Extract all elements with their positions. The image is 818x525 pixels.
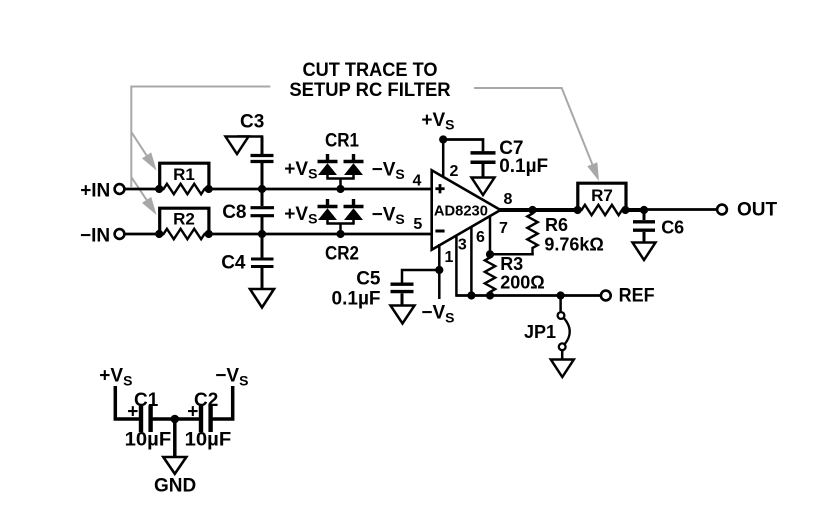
resistor R6: [490, 210, 604, 255]
capacitor C7: [471, 138, 549, 178]
node C3/+IN: [258, 185, 266, 193]
ground (C5): [391, 306, 415, 324]
wire pin 8 output: [500, 208, 579, 212]
resistor R7: [578, 183, 626, 215]
ground (C4): [250, 289, 274, 308]
terminal OUT: [717, 205, 727, 215]
node R6 bottom / pin7: [486, 250, 494, 258]
node R7 right: [621, 206, 629, 214]
wire C5 branch: [402, 270, 439, 283]
svg-text:8: 8: [504, 191, 513, 208]
svg-text:2: 2: [450, 163, 459, 180]
wire center node to ground: [173, 419, 177, 457]
capacitor C4: [221, 234, 273, 289]
node R2 right: [205, 230, 213, 238]
svg-text:C8: C8: [222, 202, 246, 223]
ground (C6): [633, 243, 656, 261]
node R1 left: [155, 185, 163, 193]
pin 2 wire: [442, 140, 445, 178]
svg-text:7: 7: [499, 220, 508, 237]
arrowhead to R2: [142, 197, 157, 215]
wire to OUT: [644, 208, 717, 211]
node R3/REF: [486, 291, 494, 299]
svg-text:C3: C3: [240, 112, 264, 133]
pin 1 wire: [438, 244, 441, 299]
wire +IN line (right of R1): [204, 188, 431, 191]
svg-text:10µF: 10µF: [185, 429, 232, 450]
node supply mid: [171, 415, 180, 424]
svg-text:CR2: CR2: [325, 244, 359, 265]
capacitor C2: [185, 390, 232, 450]
svg-text:GND: GND: [154, 476, 196, 497]
node C8/-IN: [258, 230, 266, 238]
resistor R2: [159, 208, 209, 239]
pin 7 wire: [489, 216, 492, 254]
wire R7 right to C6: [625, 208, 645, 212]
svg-text:9.76kΩ: 9.76kΩ: [544, 235, 603, 255]
svg-text:JP1: JP1: [524, 322, 556, 342]
node pin1/C5: [435, 266, 443, 274]
svg-text:10µF: 10µF: [125, 429, 172, 450]
capacitor C1: [125, 390, 172, 450]
capacitor C8: [222, 189, 274, 234]
node R1 right: [205, 185, 213, 193]
svg-text:+: +: [187, 401, 198, 422]
svg-text:1: 1: [444, 249, 453, 266]
wire +VS to C7: [443, 140, 483, 152]
svg-text:OUT: OUT: [737, 199, 778, 220]
node R6 top: [528, 206, 536, 214]
node C6: [640, 206, 648, 214]
svg-text:R1: R1: [173, 165, 195, 184]
pin 3 wire: [456, 235, 458, 296]
resistor R1: [159, 163, 209, 194]
svg-text:5: 5: [413, 216, 422, 233]
svg-text:+IN: +IN: [80, 181, 110, 202]
arrowhead to R7: [587, 162, 599, 181]
wire C2 to -VS lead (supply): [213, 386, 233, 419]
svg-text:AD8230: AD8230: [434, 203, 488, 220]
svg-text:R3: R3: [500, 254, 523, 274]
arrowhead to R1: [142, 152, 157, 170]
svg-text:+: +: [127, 401, 138, 422]
svg-text:0.1µF: 0.1µF: [332, 289, 381, 310]
wire -IN line (right of R2): [204, 233, 431, 236]
svg-text:SETUP RC FILTER: SETUP RC FILTER: [289, 80, 451, 101]
capacitor C5: [332, 269, 414, 310]
terminal +IN: [115, 184, 125, 194]
node CR2: [336, 230, 344, 238]
node pin6/REF: [467, 291, 475, 299]
node R7 left: [574, 206, 582, 214]
jumper JP1: [524, 296, 570, 360]
svg-text:4: 4: [413, 173, 422, 190]
ground (C3): [226, 137, 249, 155]
op-amp U1 AD8230: [432, 170, 501, 249]
capacitor C6: [633, 210, 684, 243]
svg-text:R2: R2: [173, 210, 195, 229]
pin 6 wire: [470, 227, 473, 296]
svg-text:C4: C4: [221, 253, 246, 274]
svg-text:3: 3: [458, 237, 467, 254]
node +VS: [439, 135, 447, 143]
leader line right (cut trace callout): [474, 88, 592, 164]
node JP1/REF: [557, 291, 565, 299]
wire -IN line (left of R2): [125, 233, 164, 236]
svg-text:REF: REF: [619, 286, 655, 307]
svg-text:C6: C6: [661, 218, 684, 238]
diode pair CR1: [284, 131, 404, 190]
svg-text:CUT TRACE TO: CUT TRACE TO: [303, 60, 438, 81]
svg-text:0.1µF: 0.1µF: [499, 156, 548, 177]
resistor R3: [485, 254, 545, 296]
svg-text:−IN: −IN: [80, 226, 110, 247]
ground (JP1): [551, 360, 574, 378]
svg-text:6: 6: [476, 229, 485, 246]
svg-text:CR1: CR1: [325, 131, 359, 152]
svg-text:R7: R7: [591, 186, 613, 205]
terminal -IN: [115, 229, 125, 239]
svg-text:R6: R6: [545, 215, 568, 235]
wire +VS lead (supply): [115, 386, 139, 419]
ground GND: [163, 457, 186, 474]
diode pair CR2: [284, 199, 404, 265]
node R2 left: [155, 230, 163, 238]
wire +IN line (left of R1): [125, 188, 164, 191]
capacitor C3: [237, 112, 274, 190]
leader line left (cut trace callout): [131, 87, 270, 200]
svg-text:C5: C5: [356, 269, 381, 290]
ground (C7): [472, 178, 495, 196]
wire REF line: [456, 294, 600, 297]
wire C1 to center node: [153, 417, 200, 421]
terminal REF: [601, 291, 611, 301]
svg-text:200Ω: 200Ω: [500, 273, 544, 293]
node CR1: [336, 185, 344, 193]
